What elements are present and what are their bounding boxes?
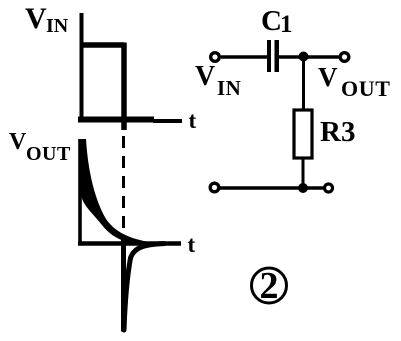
V_OUT label (circuit) [318, 62, 390, 101]
V_IN label (circuit) [195, 61, 241, 100]
wire: R3 down to bottom rail [302, 158, 305, 188]
bottom junction node [298, 183, 308, 193]
Vout terminal (top-right, open circle) [340, 53, 349, 62]
top junction node [299, 52, 309, 62]
svg-text:t: t [188, 232, 196, 257]
V_IN pulse top [80, 42, 125, 48]
svg-text:OUT: OUT [341, 76, 390, 101]
svg-text:R3: R3 [320, 116, 355, 148]
V_IN time axis (thin part) [153, 119, 182, 123]
dashed timing line [122, 136, 125, 240]
svg-text:t: t [189, 108, 197, 133]
svg-text:C: C [261, 5, 282, 37]
svg-text:V: V [318, 62, 338, 92]
bottom rail wire [220, 186, 324, 190]
svg-text:V: V [25, 2, 47, 35]
svg-text:V: V [9, 129, 27, 155]
svg-text:1: 1 [280, 11, 293, 38]
svg-text:IN: IN [217, 76, 241, 100]
svg-text:V: V [195, 61, 215, 92]
C1 label [261, 5, 293, 38]
wire: top junction down to R3 [302, 57, 305, 112]
V_OUT label (waveform plot) [9, 129, 71, 165]
V_IN time axis (thick part) [78, 117, 154, 123]
V_OUT time axis [78, 241, 181, 246]
V_OUT negative spike [121, 240, 126, 332]
svg-text:IN: IN [46, 15, 69, 37]
bottom-right terminal (open circle) [325, 184, 333, 192]
svg-text:OUT: OUT [26, 143, 71, 165]
bottom-left terminal (open circle) [210, 183, 219, 192]
wire: junction to Vout terminal [303, 55, 340, 59]
figure number 2 (circled) [252, 265, 287, 307]
V_OUT decay curve (positive lobe) [79, 139, 151, 246]
V_OUT recovery curve [124, 244, 164, 330]
wire: C1 to top junction [279, 55, 304, 59]
wire: Vin terminal to C1 [221, 55, 267, 59]
V_IN vertical axis [80, 13, 84, 121]
V_OUT vertical axis [78, 139, 82, 244]
V_IN pulse falling edge [121, 43, 127, 131]
capacitor C1 plates [267, 40, 279, 72]
resistor R3 body [294, 110, 312, 158]
V_IN label (waveform plot) [25, 2, 69, 37]
Vin terminal (top-left, open circle) [211, 53, 220, 62]
svg-text:2: 2 [260, 265, 279, 307]
